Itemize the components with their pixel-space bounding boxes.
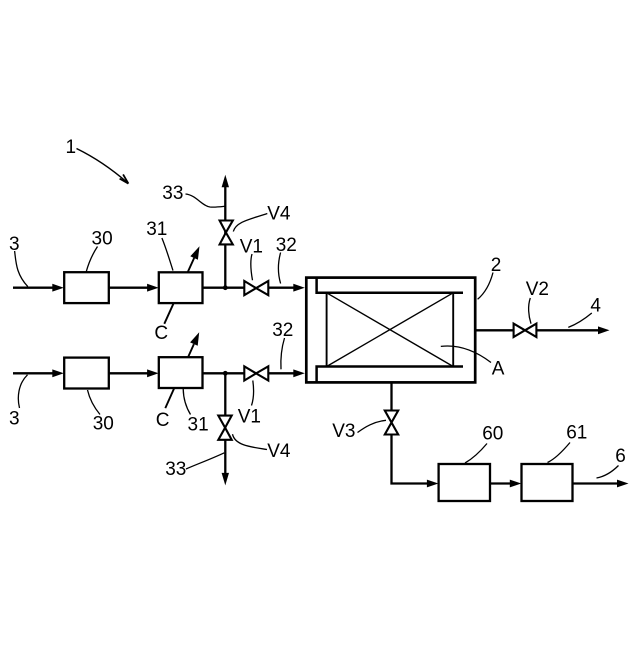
svg-text:61: 61 — [566, 422, 587, 443]
label V3 with leader — [332, 420, 386, 442]
label V1 (lower) with leader — [238, 381, 261, 428]
label V1 (upper) with leader — [240, 236, 263, 280]
wire: outlet line 6 with arrowhead — [573, 480, 629, 488]
label 33 (upper) with leader — [162, 183, 224, 207]
wire: box 30 to box 31 (upper row) with arrowhead — [109, 284, 159, 292]
svg-text:30: 30 — [93, 413, 114, 434]
label 33 (lower) with leader — [165, 453, 224, 480]
label 32 (upper) with leader — [276, 235, 297, 284]
svg-text:V2: V2 — [526, 279, 549, 300]
label 3 (upper) with leader — [9, 234, 28, 287]
vessel 2 bottom flange — [317, 367, 463, 383]
control arrow C through box 31 (upper row) — [164, 258, 194, 324]
wire: elbow from V3 to box 60 with arrowhead — [392, 435, 439, 488]
svg-text:32: 32 — [272, 320, 293, 341]
valve V2 — [514, 324, 537, 337]
node: junction on lower row wire — [223, 371, 228, 376]
svg-text:C: C — [154, 323, 168, 344]
svg-text:3: 3 — [9, 408, 20, 429]
label 1 with curved arrow — [66, 137, 129, 184]
label 6 with leader — [597, 446, 626, 478]
vessel 2 outer shell — [306, 278, 475, 383]
wire: box 31 to valve V1 (upper row) — [203, 287, 245, 289]
wire: box 30 to box 31 (lower row) with arrowhead — [109, 369, 159, 377]
svg-text:31: 31 — [188, 415, 209, 436]
label 4 with leader — [568, 296, 601, 328]
label 30 (upper) with leader — [86, 228, 112, 271]
wire: box 60 to box 61 with arrowhead — [490, 480, 521, 488]
component box 30 (upper row) — [64, 272, 109, 303]
label 61 with leader — [548, 422, 588, 462]
valve V3 — [385, 411, 398, 435]
label 32 (lower) with leader — [272, 320, 293, 369]
wire: inlet line 3 (upper row) with arrowhead into box 30 — [13, 284, 64, 292]
label V4 (lower) with leader — [233, 434, 291, 462]
svg-text:V3: V3 — [332, 421, 355, 442]
label A with leader — [441, 346, 505, 379]
component box 31, flow controller (lower row) — [159, 357, 203, 388]
wire: line 32 into vessel 2 (upper row) with arrowhead — [268, 284, 305, 292]
arrowhead of control arrow C (lower row) — [190, 332, 199, 346]
element A crossed rectangle — [327, 293, 454, 367]
control arrow C through box 31 (lower row) — [165, 344, 194, 408]
label 31 (lower) with leader — [183, 389, 208, 436]
wire: drain pipe from vessel 2 down to valve V3 — [390, 384, 392, 411]
label 3 (lower) with leader — [9, 375, 28, 430]
svg-text:31: 31 — [146, 219, 167, 240]
svg-text:33: 33 — [165, 459, 186, 480]
label V2 with leader — [526, 279, 549, 324]
vessel 2 top flange — [317, 278, 463, 293]
svg-text:V1: V1 — [238, 406, 261, 427]
component box 30 (lower row) — [64, 358, 109, 389]
wire: inlet line 3 (lower row) with arrowhead into box 30 — [13, 369, 64, 377]
valve V1 (upper row) — [244, 281, 268, 295]
label V4 (upper) with leader — [233, 203, 291, 231]
wire: vent pipe 33 down with arrowhead (lower) — [222, 373, 229, 485]
svg-text:V4: V4 — [267, 441, 291, 462]
svg-text:A: A — [492, 359, 505, 380]
valve V1 (lower row) — [244, 366, 268, 380]
svg-text:1: 1 — [66, 137, 77, 158]
svg-text:V4: V4 — [267, 203, 291, 224]
arrowhead of control arrow C (upper row) — [190, 246, 199, 260]
valve V4 (lower) — [218, 416, 231, 440]
label 30 (lower) with leader — [88, 390, 114, 434]
label 31 (upper) with leader — [146, 219, 173, 271]
wire: line 32 into vessel 2 (lower row) with arrowhead — [268, 369, 305, 377]
node: junction on upper row wire — [223, 285, 228, 290]
wire: outlet line 4 from vessel 2 with arrowhead — [477, 326, 610, 334]
label 60 with leader — [465, 423, 503, 463]
label 2 with leader — [478, 255, 502, 299]
wire: vent pipe 33 up with arrowhead (upper) — [222, 175, 229, 288]
svg-text:33: 33 — [162, 183, 183, 204]
svg-text:C: C — [156, 410, 170, 431]
svg-text:32: 32 — [276, 235, 297, 256]
svg-text:60: 60 — [482, 423, 503, 444]
svg-text:6: 6 — [615, 446, 626, 467]
wire: box 31 to valve V1 (lower row) — [203, 372, 245, 374]
component box 61 — [522, 464, 573, 501]
component box 31, flow controller (upper row) — [159, 272, 203, 303]
svg-text:30: 30 — [92, 228, 113, 249]
valve V4 (upper) — [220, 221, 233, 245]
component box 60 — [439, 464, 490, 501]
